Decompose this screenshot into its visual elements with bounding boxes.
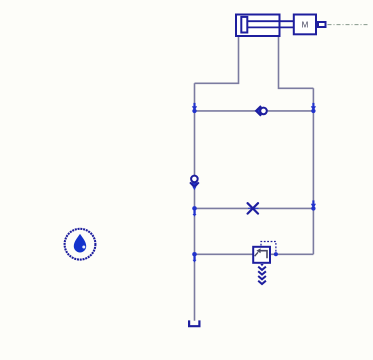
relief valve spring xyxy=(258,267,266,284)
closed connection X (plugged line) xyxy=(248,207,259,209)
wire: relief valve right line xyxy=(271,253,313,255)
junction J2 with flow arrow (right, upper line) xyxy=(311,103,316,113)
fluid symbol: drop xyxy=(74,234,86,253)
fluid symbol: drop highlight xyxy=(82,246,85,249)
fluid symbol: dotted circle xyxy=(65,229,96,260)
pilot connection dot xyxy=(274,252,278,256)
wire: right port down from cylinder xyxy=(279,36,314,88)
relief valve pilot dashed line xyxy=(261,242,276,252)
wire: relief valve left line xyxy=(195,253,254,255)
check valve V1 (horizontal line) xyxy=(256,106,267,116)
wire: upper horizontal line with check valve xyxy=(195,110,314,112)
cylinder barrel xyxy=(236,15,280,37)
junction J5 with flow arrow (left, relief line) xyxy=(192,252,197,263)
cylinder piston rod xyxy=(247,21,294,27)
wire: right vertical main line xyxy=(312,88,314,254)
relief valve internal arrow xyxy=(255,248,267,258)
check valve V2 (vertical left line) xyxy=(190,176,199,191)
distance rule dash-dot line xyxy=(328,24,370,26)
wire: left port down from cylinder xyxy=(195,36,239,83)
wire: left vertical main line xyxy=(194,83,196,320)
stub block on motor right xyxy=(318,22,326,27)
motor box M (measuring unit) xyxy=(294,15,316,35)
tank xyxy=(189,320,199,326)
cylinder piston xyxy=(241,17,247,33)
svg-text:M: M xyxy=(302,20,309,29)
junction J3 with flow arrow (right, middle line) xyxy=(311,200,316,210)
wire: middle horizontal line with closed connection xyxy=(195,207,314,209)
junction J4 with flow arrow (left, middle line) xyxy=(192,206,197,217)
junction J1 with flow arrow (left, upper line) xyxy=(192,103,197,113)
pressure relief valve body xyxy=(253,247,270,263)
